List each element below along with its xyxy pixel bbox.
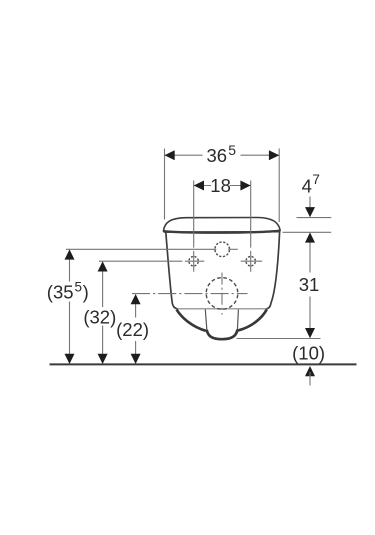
dim 4.7: bottom extension line	[283, 231, 332, 233]
dim (35.5): vertical line	[69, 255, 71, 359]
dim (32): up arrow	[98, 261, 108, 271]
dim (22): vertical line	[135, 300, 137, 360]
leader dash-dot line to outlet circle (22 level)	[132, 293, 248, 295]
dim (35.5): up arrow	[65, 249, 75, 259]
outlet big dashed circle	[206, 278, 238, 310]
right mounting hole crosshair	[241, 260, 263, 262]
dim 18: left extension line	[193, 181, 195, 272]
toilet body left edge	[166, 232, 178, 309]
dim (32): vertical line	[102, 267, 104, 359]
leader line to left mounting hole (32 level)	[99, 260, 204, 262]
outlet tongue bottom curve	[207, 330, 238, 340]
dim (22): up arrow	[131, 294, 141, 304]
leader line to water supply circle (35.5 level)	[66, 248, 216, 250]
dim (32): down arrow	[98, 354, 108, 364]
svg-text:365: 365	[207, 142, 237, 166]
dim 31: dimension line	[309, 238, 311, 332]
dim 18: right extension line	[250, 181, 252, 272]
dim 18: dimension line	[194, 185, 251, 187]
dim 36.5: right extension line	[278, 149, 280, 223]
svg-text:(32): (32)	[83, 306, 116, 327]
outlet circle vertical crosshair	[221, 273, 223, 315]
left mounting hole	[189, 257, 198, 266]
dim 4.7: down arrow	[305, 207, 315, 217]
toilet bowl underside left arc	[177, 309, 206, 330]
water supply small dashed circle	[215, 242, 230, 257]
svg-text:(22): (22)	[116, 319, 149, 340]
dim (10): stem	[309, 372, 311, 386]
svg-text:47: 47	[302, 172, 320, 196]
dim 36.5: dimension line	[165, 154, 280, 156]
toilet seat lid bottom thick line	[164, 231, 280, 233]
svg-text:(10): (10)	[292, 342, 325, 363]
floor line	[50, 363, 357, 365]
outlet tongue right side	[237, 310, 238, 331]
toilet body right edge	[266, 232, 280, 309]
dim (10): top extension line from tongue	[237, 338, 321, 340]
dim 36.5: right arrow	[269, 150, 279, 160]
svg-text:18: 18	[210, 175, 231, 196]
dim 31: up arrow	[305, 232, 315, 242]
dim (35.5): down arrow	[65, 354, 75, 364]
dim 4.7: top extension line	[297, 217, 332, 219]
svg-text:31: 31	[299, 274, 320, 295]
outlet tongue left side	[205, 310, 207, 331]
dim 31: down arrow	[305, 328, 315, 338]
water supply circle right crosshair stub	[228, 248, 238, 250]
toilet seat lid	[163, 218, 280, 233]
dim (10): up arrow under floor	[305, 366, 315, 376]
toilet body ceramic white fill	[166, 232, 280, 309]
svg-text:(355): (355)	[47, 279, 89, 302]
toilet bowl underside right arc	[238, 309, 267, 330]
dim 18: left arrow	[194, 181, 204, 191]
dim 36.5: left arrow	[165, 150, 175, 160]
dim 4.7: stem	[309, 197, 311, 209]
toilet body bottom straight line	[177, 308, 268, 310]
dim 36.5: left extension line	[164, 149, 166, 220]
dim (22): down arrow	[131, 354, 141, 364]
right mounting hole	[246, 257, 255, 266]
dim 18: right arrow	[240, 181, 250, 191]
